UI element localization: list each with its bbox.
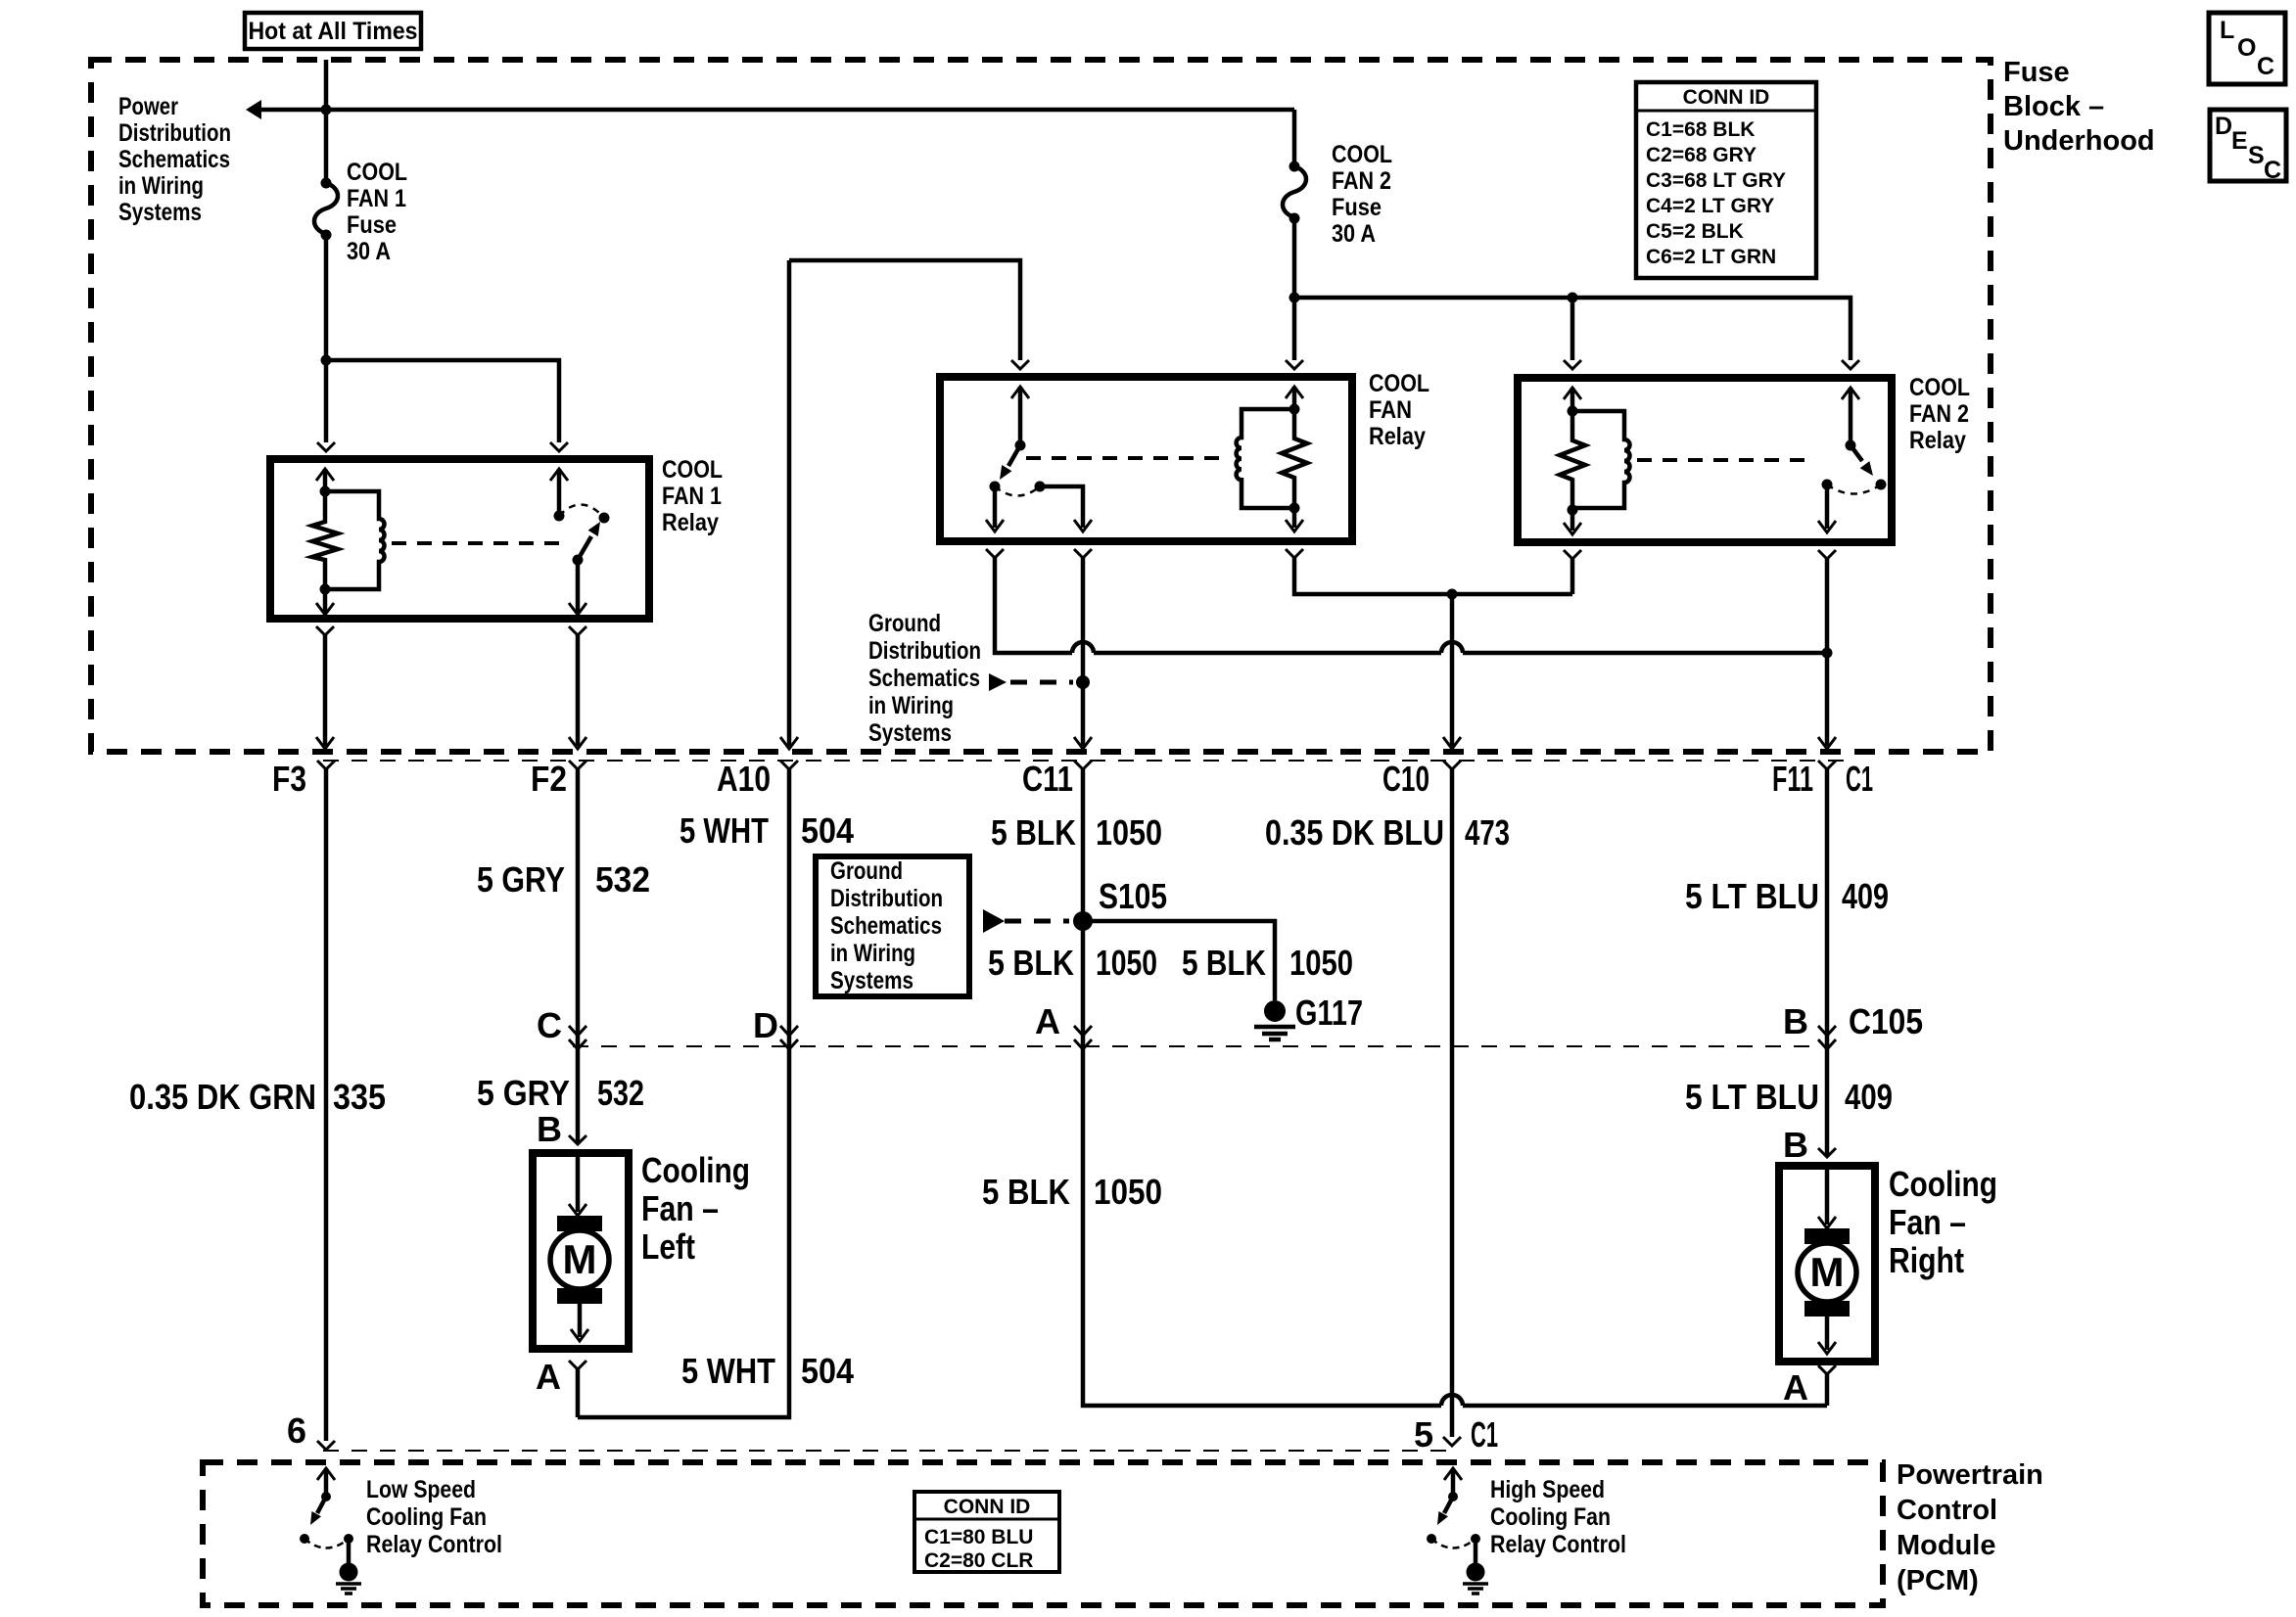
connector chevron F3 — [317, 761, 335, 769]
dashed arc relay mid switch throw — [995, 486, 1040, 496]
svg-text:504: 504 — [801, 1351, 854, 1391]
dashed link relay mid switch to coil — [1026, 456, 1229, 460]
svg-text:C: C — [537, 1005, 562, 1045]
node relay mid switch out right — [1035, 482, 1046, 492]
Powertrain Control Module dashed box — [203, 1462, 1883, 1605]
svg-text:Cooling Fan: Cooling Fan — [1490, 1503, 1611, 1531]
arrow pointer ground distribution 2 — [983, 909, 1069, 933]
pin chevron relay mid out left bottom — [986, 549, 1004, 558]
label Low Speed Cooling Fan Relay Control — [366, 1476, 502, 1558]
svg-text:Schematics: Schematics — [118, 146, 230, 173]
svg-text:Relay: Relay — [662, 509, 719, 536]
svg-text:D: D — [2215, 113, 2232, 140]
svg-text:High Speed: High Speed — [1490, 1476, 1605, 1503]
label High Speed Cooling Fan Relay Control — [1490, 1476, 1626, 1558]
label G117 — [1295, 993, 1363, 1033]
label 5 C1 — [1414, 1414, 1498, 1455]
wire fuse2 down — [1292, 218, 1297, 360]
resistor relay1 — [312, 491, 338, 589]
pin arrow relay2 switch common inside — [1842, 388, 1859, 445]
wire left motor A down — [576, 1369, 581, 1417]
ground low speed — [336, 1563, 361, 1594]
relay COOL FAN 1 Relay box — [270, 459, 649, 619]
pin chevron relay2 switch bottom — [1818, 550, 1836, 559]
pin chevron relay mid out right bottom — [1074, 549, 1092, 558]
svg-text:D: D — [753, 1005, 778, 1045]
wire C11 riser — [1083, 769, 1827, 1406]
connector chevron C11 — [1074, 761, 1092, 769]
pin arrow relay mid coil bottom inside — [1286, 508, 1303, 531]
svg-text:C2=68 GRY: C2=68 GRY — [1646, 144, 1757, 166]
svg-text:COOL: COOL — [1909, 374, 1970, 401]
node fuse2 rail junction — [1289, 293, 1300, 303]
svg-text:FAN: FAN — [1369, 396, 1412, 424]
node relay1 switch NO contact — [599, 513, 610, 524]
wire rail drop to relay2 coil — [1570, 298, 1575, 360]
connector C105 dashed line — [573, 1045, 1819, 1047]
node rail tap relay2 coil — [1568, 293, 1578, 303]
pin arrow relay1 coil top inside — [316, 469, 334, 491]
connector chevron PCM 6 — [317, 1441, 335, 1450]
svg-text:in Wiring: in Wiring — [118, 172, 204, 200]
svg-text:Relay Control: Relay Control — [1490, 1531, 1626, 1558]
svg-text:F3: F3 — [272, 759, 306, 799]
svg-text:COOL: COOL — [1332, 141, 1392, 168]
svg-text:Cooling Fan: Cooling Fan — [366, 1503, 487, 1531]
svg-text:F2: F2 — [531, 759, 567, 799]
svg-text:B: B — [1783, 1001, 1808, 1041]
splice S105 — [1073, 911, 1093, 931]
pin arrow relay2 coil top inside — [1564, 388, 1581, 411]
connector C105 chevrons C — [569, 1026, 586, 1049]
node coil returns junction C10 — [1447, 589, 1458, 600]
wire C10 riser — [1450, 769, 1455, 1437]
svg-text:COOL: COOL — [1369, 370, 1429, 397]
svg-text:409: 409 — [1845, 1077, 1893, 1117]
svg-text:Systems: Systems — [868, 719, 952, 747]
svg-text:C1: C1 — [1471, 1414, 1498, 1455]
wire relay1 switch to F2 — [569, 635, 586, 749]
svg-text:1050: 1050 — [1094, 1172, 1162, 1212]
svg-text:5 GRY: 5 GRY — [477, 1073, 570, 1113]
label S105 — [1099, 876, 1167, 916]
label F2 — [531, 759, 567, 799]
svg-text:Relay Control: Relay Control — [366, 1531, 502, 1558]
svg-text:S105: S105 — [1099, 876, 1167, 916]
label C10 — [1382, 759, 1429, 799]
wire relay mid out right to C11 border — [1074, 558, 1092, 749]
switch blade relay2 — [1851, 445, 1887, 490]
pin arrow relay2 coil bottom inside — [1564, 510, 1581, 534]
svg-text:Fan –: Fan – — [1889, 1202, 1966, 1242]
wire relay1 coil to F3 — [316, 635, 334, 749]
wire hot feed vertical — [324, 60, 329, 183]
connector chevron F2 — [569, 761, 586, 769]
label 5 BLK 1050 splice right — [1182, 943, 1353, 983]
svg-text:L: L — [2220, 17, 2234, 44]
label A right motor — [1783, 1367, 1808, 1408]
CONN ID table underhood — [1636, 82, 1816, 278]
svg-text:C1: C1 — [1846, 759, 1873, 799]
label Cooling Fan Right — [1889, 1164, 1997, 1280]
label Ground Distribution Schematics pointer 1 — [868, 610, 981, 747]
svg-text:FAN 1: FAN 1 — [347, 185, 406, 212]
wire C10 drop to border — [1443, 594, 1461, 749]
svg-text:Fuse: Fuse — [2003, 57, 2070, 88]
label B left motor — [537, 1109, 562, 1149]
label 5 LT BLU 409 upper — [1685, 876, 1889, 916]
svg-text:CONN ID: CONN ID — [1683, 86, 1770, 109]
svg-text:Left: Left — [641, 1226, 695, 1267]
svg-text:C1=68 BLK: C1=68 BLK — [1646, 118, 1755, 141]
svg-text:0.35 DK BLU: 0.35 DK BLU — [1265, 812, 1444, 853]
svg-text:Relay: Relay — [1909, 427, 1966, 454]
pin chevron right motor bottom — [1818, 1365, 1836, 1374]
label C — [537, 1005, 562, 1045]
label 0.35 DK GRN 335 — [129, 1077, 386, 1117]
motor M left symbol — [550, 1157, 609, 1341]
connector C105 chevrons D — [780, 1026, 798, 1049]
svg-text:Fuse: Fuse — [347, 211, 397, 239]
wire F3 riser — [324, 769, 329, 1441]
dashed link relay2 coil to switch — [1637, 458, 1811, 462]
svg-text:Distribution: Distribution — [830, 885, 943, 912]
svg-text:5 GRY: 5 GRY — [477, 859, 565, 900]
svg-text:5 BLK: 5 BLK — [1182, 943, 1266, 983]
svg-text:Cooling: Cooling — [641, 1150, 750, 1190]
svg-text:C2=80 CLR: C2=80 CLR — [924, 1549, 1033, 1572]
svg-text:5: 5 — [1414, 1414, 1433, 1455]
label COOL FAN Relay — [1369, 370, 1429, 450]
svg-text:5 WHT: 5 WHT — [679, 810, 769, 851]
svg-text:in Wiring: in Wiring — [830, 940, 915, 967]
svg-text:CONN ID: CONN ID — [944, 1496, 1031, 1518]
pin chevron relay2 coil bottom — [1564, 550, 1581, 559]
label COOL FAN 2 Fuse 30 A — [1332, 141, 1392, 248]
wire relay2 out to F11 border — [1818, 559, 1836, 749]
svg-text:Fuse: Fuse — [1332, 194, 1382, 221]
wire power distribution rail — [258, 108, 1294, 113]
label B C105 — [1783, 1001, 1923, 1041]
svg-text:C5=2 BLK: C5=2 BLK — [1646, 220, 1744, 243]
svg-text:Control: Control — [1897, 1495, 1997, 1526]
LOC box — [2209, 13, 2285, 84]
svg-text:Block –: Block – — [2003, 91, 2104, 122]
svg-text:5 BLK: 5 BLK — [988, 943, 1074, 983]
svg-text:Right: Right — [1889, 1240, 1964, 1280]
svg-text:1050: 1050 — [1096, 943, 1157, 983]
connector C105 chevrons B — [1818, 1026, 1836, 1049]
svg-text:O: O — [2237, 34, 2256, 62]
svg-text:5 LT BLU: 5 LT BLU — [1685, 1077, 1819, 1117]
inductor coil relay mid — [1237, 409, 1294, 508]
label 5 BLK 1050 splice left — [988, 943, 1157, 983]
svg-text:1050: 1050 — [1096, 812, 1162, 853]
svg-text:Distribution: Distribution — [868, 637, 981, 665]
PCM connector dashed line — [323, 1450, 1456, 1452]
wire A10 riser lower — [578, 769, 789, 1417]
node relay mid coil bottom — [1289, 503, 1300, 514]
label Powertrain Control Module (PCM) — [1897, 1459, 2043, 1596]
svg-text:C11: C11 — [1022, 759, 1073, 799]
motor M right symbol — [1798, 1170, 1856, 1354]
svg-text:(PCM): (PCM) — [1897, 1565, 1979, 1596]
label 5 BLK 1050 upper — [991, 812, 1162, 853]
wire right motor A down — [1825, 1374, 1830, 1406]
svg-text:5 BLK: 5 BLK — [991, 812, 1076, 853]
svg-text:C: C — [2264, 157, 2281, 184]
svg-text:Distribution: Distribution — [118, 119, 231, 147]
switch high speed relay control — [1427, 1468, 1480, 1563]
svg-text:Power: Power — [118, 93, 178, 120]
wire A10 riser top to relay mid — [789, 260, 1020, 360]
pin arrow relay1 switch out inside — [569, 560, 586, 615]
svg-text:G117: G117 — [1295, 993, 1363, 1033]
switch blade relay1 — [573, 522, 601, 566]
label 6 — [287, 1410, 306, 1451]
wire relay mid coil return to C10 junction — [1294, 558, 1572, 594]
node relay1 switch common — [554, 511, 565, 522]
node relay2 coil bottom — [1568, 505, 1578, 516]
svg-text:C: C — [2257, 53, 2274, 80]
pin chevron relay mid coil bottom — [1286, 549, 1303, 558]
svg-text:C3=68 LT GRY: C3=68 LT GRY — [1646, 169, 1786, 192]
fuse COOL FAN 1 30A — [314, 178, 338, 241]
node ground distribution tap — [1076, 675, 1090, 689]
svg-text:5 BLK: 5 BLK — [982, 1172, 1070, 1212]
dashed link relay1 coil to switch — [392, 541, 566, 545]
wire relay mid out left to F11 rail — [995, 558, 1827, 653]
node F11 rail junction — [1822, 648, 1833, 659]
label COOL FAN 1 Relay — [662, 456, 723, 536]
svg-text:A10: A10 — [717, 759, 771, 799]
node relay mid switch common — [1015, 440, 1026, 451]
connector chevron C10 — [1443, 761, 1461, 769]
svg-text:C10: C10 — [1382, 759, 1429, 799]
fuse COOL FAN 2 feed corner — [1292, 110, 1297, 166]
node branch to relay1 switch — [321, 355, 332, 366]
wire branch to relay1 switch pin — [326, 360, 559, 442]
svg-text:in Wiring: in Wiring — [868, 692, 954, 719]
CONN ID table PCM — [914, 1492, 1059, 1572]
DESC box — [2210, 110, 2286, 184]
node relay1 coil bottom — [320, 584, 331, 595]
svg-text:C105: C105 — [1849, 1001, 1923, 1041]
connector C105 chevrons A — [1074, 1026, 1092, 1049]
svg-text:M: M — [1810, 1249, 1845, 1295]
switch low speed relay control — [300, 1468, 353, 1563]
pin chevron relay1 switch bottom — [569, 626, 586, 635]
wire A10 riser down — [780, 260, 798, 749]
dashed arc relay1 switch throw — [559, 504, 604, 518]
pin arrow relay1 coil bottom inside — [316, 589, 334, 615]
pin arrow relay2 switch out inside — [1818, 485, 1836, 532]
node relay1 coil top — [320, 486, 331, 497]
node junction hot feed — [321, 105, 332, 115]
label 5 GRY 532 upper — [477, 859, 650, 900]
svg-text:Fan –: Fan – — [641, 1188, 719, 1228]
svg-text:Powertrain: Powertrain — [1897, 1459, 2043, 1491]
motor Cooling Fan Right box — [1779, 1166, 1875, 1362]
pin chevron left motor top — [569, 1135, 586, 1144]
pin chevron right motor top — [1818, 1148, 1836, 1157]
svg-text:B: B — [1783, 1125, 1808, 1165]
svg-text:Ground: Ground — [830, 857, 903, 885]
label C11 — [1022, 759, 1073, 799]
pin chevron relay1 switch top — [550, 442, 568, 451]
wire fuse1 to relay1 — [324, 235, 329, 442]
node relay2 switch out — [1822, 480, 1833, 490]
label 5 WHT 504 lower — [681, 1351, 854, 1391]
label Power Distribution Schematics in Wiring Systems — [118, 93, 231, 226]
label Fuse Block Underhood — [2003, 57, 2155, 157]
label F11 C1 — [1772, 759, 1873, 799]
svg-text:Systems: Systems — [830, 967, 914, 994]
label 0.35 DK BLU 473 — [1265, 812, 1510, 853]
svg-text:532: 532 — [597, 1073, 644, 1113]
arrow to power distribution — [246, 100, 261, 119]
svg-text:A: A — [1783, 1367, 1808, 1408]
svg-text:F11: F11 — [1772, 759, 1813, 799]
label Hot at All Times — [245, 13, 421, 49]
switch blade relay mid — [990, 445, 1021, 492]
svg-text:409: 409 — [1842, 876, 1889, 916]
svg-text:C4=2 LT GRY: C4=2 LT GRY — [1646, 195, 1774, 217]
node relay2 switch common — [1846, 440, 1856, 451]
svg-text:532: 532 — [595, 859, 650, 900]
dashed arc relay2 switch throw — [1827, 485, 1881, 494]
svg-text:Hot at All Times: Hot at All Times — [249, 18, 418, 45]
svg-text:E: E — [2231, 127, 2248, 155]
Ground Distribution Schematics box — [816, 856, 969, 996]
svg-text:M: M — [563, 1236, 597, 1282]
pin arrow relay mid out left inside — [986, 486, 1004, 531]
label COOL FAN 1 Fuse 30 A — [347, 159, 407, 265]
pin chevron relay2 switch top — [1842, 360, 1859, 369]
resistor relay2 — [1560, 411, 1585, 510]
label 5 GRY 532 lower — [477, 1073, 644, 1113]
label 5 BLK 1050 lower — [982, 1172, 1162, 1212]
pin chevron relay2 coil top — [1564, 360, 1581, 369]
svg-text:C1=80 BLU: C1=80 BLU — [924, 1526, 1033, 1548]
connector chevron F11 — [1818, 761, 1836, 769]
pin chevron relay1 coil bottom — [316, 626, 334, 635]
label Cooling Fan Left — [641, 1150, 750, 1267]
arrow pointer ground distribution 1 — [989, 673, 1073, 691]
svg-text:Low Speed: Low Speed — [366, 1476, 476, 1503]
connector chevron PCM 5 — [1443, 1437, 1461, 1446]
relay COOL FAN Relay box — [940, 377, 1352, 541]
connector chevron A10 — [780, 761, 798, 769]
svg-text:FAN 1: FAN 1 — [662, 483, 722, 510]
svg-text:30 A: 30 A — [347, 238, 391, 265]
svg-text:FAN 2: FAN 2 — [1909, 400, 1969, 428]
svg-text:Cooling: Cooling — [1889, 1164, 1997, 1204]
ground G117 — [1254, 1000, 1295, 1039]
label 5 WHT 504 upper — [679, 810, 854, 851]
resistor relay mid — [1282, 409, 1307, 508]
pin arrow relay mid coil top inside — [1286, 387, 1303, 409]
node relay mid coil top — [1289, 404, 1300, 415]
pin chevron left motor bottom — [569, 1361, 586, 1369]
svg-text:5 LT BLU: 5 LT BLU — [1685, 876, 1819, 916]
label A mid — [1035, 1001, 1060, 1041]
inductor coil relay1 — [325, 491, 385, 589]
label B right motor — [1783, 1125, 1808, 1165]
svg-text:Ground: Ground — [868, 610, 941, 637]
svg-text:Relay: Relay — [1369, 423, 1426, 450]
label F3 — [272, 759, 306, 799]
wire F2 riser — [576, 769, 581, 1144]
svg-text:Schematics: Schematics — [830, 912, 942, 940]
svg-text:1050: 1050 — [1289, 943, 1353, 983]
pin arrow relay1 switch common inside — [550, 469, 568, 516]
label A left motor — [536, 1357, 561, 1397]
svg-text:C6=2 LT GRN: C6=2 LT GRN — [1646, 246, 1776, 268]
svg-text:473: 473 — [1465, 812, 1510, 853]
svg-text:S: S — [2248, 142, 2265, 169]
fuse block bottom connector dashed line — [323, 760, 1853, 762]
svg-text:A: A — [1035, 1001, 1060, 1041]
Fuse Block - Underhood dashed box — [91, 60, 1991, 752]
svg-text:0.35 DK GRN: 0.35 DK GRN — [129, 1077, 316, 1117]
svg-text:335: 335 — [333, 1077, 386, 1117]
ground high speed — [1463, 1563, 1488, 1594]
svg-text:B: B — [537, 1109, 562, 1149]
label D — [753, 1005, 778, 1045]
label COOL FAN 2 Relay — [1909, 374, 1970, 454]
wire S105 to G117 — [1083, 921, 1275, 1000]
label 5 LT BLU 409 lower — [1685, 1077, 1893, 1117]
svg-text:Underhood: Underhood — [2003, 125, 2155, 157]
pin chevron relay mid coil top — [1286, 360, 1303, 369]
relay COOL FAN 2 Relay box — [1518, 378, 1892, 542]
svg-text:Systems: Systems — [118, 199, 202, 226]
motor Cooling Fan Left box — [533, 1153, 629, 1349]
fuse COOL FAN 2 30A — [1283, 162, 1306, 224]
svg-text:Schematics: Schematics — [868, 665, 980, 692]
svg-text:COOL: COOL — [347, 159, 407, 186]
svg-text:30 A: 30 A — [1332, 220, 1376, 248]
svg-text:FAN 2: FAN 2 — [1332, 167, 1391, 195]
node relay2 coil top — [1568, 406, 1578, 417]
pin chevron relay1 coil top — [317, 442, 335, 451]
inductor coil relay2 — [1572, 411, 1630, 508]
svg-text:Module: Module — [1897, 1530, 1996, 1561]
svg-text:6: 6 — [287, 1410, 306, 1451]
pin arrow relay mid out right inside — [1040, 486, 1092, 531]
wire fuse2 rail to relay2 — [1294, 298, 1851, 360]
label A10 — [717, 759, 771, 799]
svg-text:A: A — [536, 1357, 561, 1397]
pin chevron relay mid switch common top — [1011, 360, 1029, 369]
wire F11 riser — [1825, 769, 1830, 1157]
svg-text:COOL: COOL — [662, 456, 723, 484]
svg-text:5 WHT: 5 WHT — [681, 1351, 775, 1391]
svg-text:504: 504 — [801, 810, 854, 851]
pin arrow relay mid switch common inside — [1011, 387, 1029, 445]
